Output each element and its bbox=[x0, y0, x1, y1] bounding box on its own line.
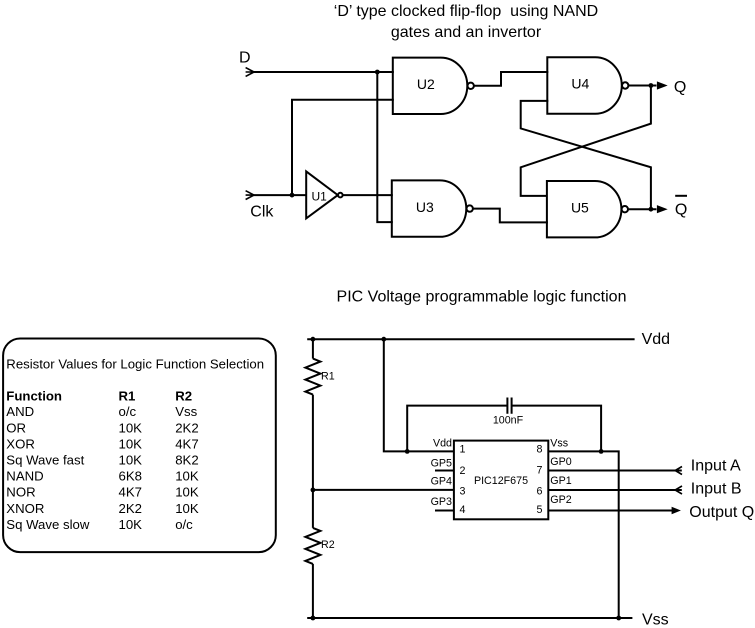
arrow head Qbar output bbox=[657, 205, 668, 213]
wire R1 to mid junction bbox=[312, 395, 314, 528]
svg-text:AND: AND bbox=[6, 404, 34, 419]
svg-text:Vss: Vss bbox=[550, 437, 568, 449]
svg-text:U4: U4 bbox=[571, 76, 589, 92]
wire U3 output to U5 bottom input bbox=[473, 209, 548, 223]
nand gate U5 body bbox=[547, 181, 622, 237]
svg-text:10K: 10K bbox=[175, 485, 199, 500]
svg-text:NOR: NOR bbox=[6, 485, 35, 500]
U2 output bubble bbox=[468, 83, 474, 89]
svg-text:2K2: 2K2 bbox=[119, 501, 142, 516]
svg-text:10K: 10K bbox=[119, 517, 143, 532]
arrow head Output Q bbox=[672, 507, 681, 515]
resistor R2 bbox=[305, 528, 320, 564]
svg-text:4: 4 bbox=[460, 504, 466, 516]
arrow head Input A bbox=[675, 467, 682, 475]
svg-text:PIC12F675: PIC12F675 bbox=[474, 475, 528, 487]
wire U5 output to Qbar bbox=[628, 208, 657, 210]
wire pin 5 Output Q bbox=[548, 510, 673, 512]
wire pin 6 Input B bbox=[548, 489, 682, 491]
resistor values table rounded box bbox=[3, 339, 276, 553]
svg-text:1: 1 bbox=[460, 444, 466, 456]
svg-text:U2: U2 bbox=[417, 76, 435, 92]
junction dot at Qbar output bbox=[649, 207, 654, 212]
svg-text:10K: 10K bbox=[119, 453, 143, 468]
capacitor C1 100nF plates bbox=[507, 398, 511, 414]
svg-text:6K8: 6K8 bbox=[119, 469, 142, 484]
svg-text:R1: R1 bbox=[119, 388, 136, 403]
svg-text:Clk: Clk bbox=[250, 204, 274, 221]
svg-text:R1: R1 bbox=[321, 371, 335, 383]
nand gate U4 body bbox=[547, 57, 621, 113]
inverter U1 triangle bbox=[306, 171, 338, 218]
svg-text:XOR: XOR bbox=[6, 436, 35, 451]
svg-text:10K: 10K bbox=[119, 420, 143, 435]
svg-text:8: 8 bbox=[537, 444, 543, 456]
svg-text:U1: U1 bbox=[312, 190, 328, 204]
wire pin 8 to Vss rail bbox=[548, 451, 618, 618]
svg-text:10K: 10K bbox=[175, 501, 199, 516]
svg-text:GP1: GP1 bbox=[550, 475, 571, 487]
svg-text:Resistor Values for Logic Func: Resistor Values for Logic Function Selec… bbox=[6, 357, 264, 372]
wire Vdd rail to R1 bbox=[312, 339, 314, 358]
wire U2 output to U4 top input bbox=[474, 72, 548, 86]
svg-text:‘D’ type clocked flip-flop us: ‘D’ type clocked flip-flop using NAND bbox=[334, 3, 598, 20]
nand gate U2 body bbox=[393, 58, 468, 114]
junction dot divider mid node bbox=[311, 488, 316, 493]
junction dot at Q output bbox=[649, 83, 654, 88]
junction dot capacitor right leg at pin 8 bbox=[599, 449, 604, 454]
svg-text:NAND: NAND bbox=[6, 469, 43, 484]
svg-text:Q: Q bbox=[674, 79, 686, 96]
svg-text:Output Q: Output Q bbox=[689, 504, 754, 521]
svg-text:8K2: 8K2 bbox=[175, 453, 198, 468]
nand gate U3 body bbox=[392, 180, 466, 236]
svg-text:o/c: o/c bbox=[119, 404, 137, 419]
svg-text:GP5: GP5 bbox=[431, 458, 452, 470]
svg-text:Sq Wave slow: Sq Wave slow bbox=[6, 517, 90, 532]
pin 4 stub wire bbox=[435, 510, 454, 512]
wire pin 7 Input A bbox=[548, 470, 682, 472]
svg-text:Vdd: Vdd bbox=[642, 331, 670, 348]
wire capacitor right leg bbox=[512, 406, 601, 452]
svg-text:5: 5 bbox=[537, 504, 543, 516]
svg-text:GP3: GP3 bbox=[431, 496, 452, 508]
wire U4 output to Q bbox=[628, 85, 656, 87]
svg-text:R2: R2 bbox=[321, 539, 335, 551]
svg-text:R2: R2 bbox=[175, 388, 192, 403]
Qbar overbar bbox=[675, 195, 687, 197]
junction dot on Clk line bbox=[290, 193, 295, 198]
junction dot Vss rail right bbox=[616, 616, 621, 621]
svg-text:2K2: 2K2 bbox=[175, 420, 198, 435]
junction dot Vdd rail chip branch bbox=[381, 337, 386, 342]
svg-text:GP0: GP0 bbox=[550, 456, 571, 468]
wire Clk branch vertical to U2 bottom input bbox=[292, 100, 394, 195]
junction dot Vss rail left bbox=[311, 616, 316, 621]
U4 output bubble bbox=[622, 82, 628, 88]
wire Vdd rail bbox=[307, 338, 634, 340]
inverter U1 output bubble bbox=[338, 193, 343, 198]
svg-text:4K7: 4K7 bbox=[175, 436, 198, 451]
arrow head Input B bbox=[675, 486, 682, 494]
svg-text:Function: Function bbox=[6, 388, 62, 403]
U3 output bubble bbox=[467, 205, 473, 211]
svg-text:gates and an invertor: gates and an invertor bbox=[391, 24, 542, 41]
svg-text:Input A: Input A bbox=[691, 457, 741, 474]
svg-text:10K: 10K bbox=[119, 436, 143, 451]
svg-text:o/c: o/c bbox=[175, 517, 193, 532]
svg-text:GP4: GP4 bbox=[431, 476, 452, 488]
wire capacitor left leg bbox=[407, 406, 507, 452]
svg-text:4K7: 4K7 bbox=[119, 485, 142, 500]
junction dot on D line bbox=[375, 70, 380, 75]
wire R2 to Vss rail bbox=[312, 564, 314, 618]
svg-text:Vss: Vss bbox=[642, 611, 669, 628]
IC U6 PIC12F675 body bbox=[454, 441, 548, 520]
wire feedback Q to U5 top input bbox=[521, 86, 651, 196]
svg-text:Vss: Vss bbox=[175, 404, 197, 419]
svg-text:U5: U5 bbox=[571, 199, 589, 215]
svg-text:Input B: Input B bbox=[691, 480, 742, 497]
arrow head Q output bbox=[657, 81, 668, 89]
svg-text:Sq Wave fast: Sq Wave fast bbox=[6, 453, 84, 468]
wire feedback Qbar to U4 bottom input bbox=[521, 101, 651, 209]
pin 2 stub wire bbox=[435, 470, 454, 472]
svg-text:Vdd: Vdd bbox=[433, 437, 452, 449]
junction dot Vdd rail left bbox=[311, 337, 316, 342]
wire Vss rail bbox=[307, 617, 632, 619]
junction dot capacitor left leg bbox=[405, 449, 410, 454]
wire Vdd branch down to pin 1 bbox=[384, 339, 454, 451]
wire U1 output to U3 top input bbox=[343, 194, 393, 196]
svg-text:3: 3 bbox=[460, 485, 466, 497]
svg-text:Q: Q bbox=[675, 201, 687, 218]
wire Clk to inverter bbox=[253, 194, 306, 196]
input arrow D bbox=[246, 68, 254, 77]
svg-text:2: 2 bbox=[460, 465, 466, 477]
input arrow Clk bbox=[246, 191, 254, 200]
svg-text:100nF: 100nF bbox=[493, 415, 524, 427]
svg-text:GP2: GP2 bbox=[550, 494, 571, 506]
wire mid node to GP4 pin 3 bbox=[313, 489, 454, 491]
svg-text:XNOR: XNOR bbox=[6, 501, 44, 516]
svg-text:6: 6 bbox=[537, 485, 543, 497]
svg-text:PIC Voltage programmable logic: PIC Voltage programmable logic function bbox=[337, 289, 627, 306]
wire D vertical down to U3 bottom input bbox=[377, 72, 393, 222]
wire D to U2 top input bbox=[253, 71, 394, 73]
svg-text:7: 7 bbox=[537, 464, 543, 476]
svg-text:10K: 10K bbox=[175, 469, 199, 484]
svg-text:U3: U3 bbox=[416, 199, 434, 215]
resistor R1 bbox=[305, 359, 320, 395]
svg-text:D: D bbox=[239, 50, 251, 67]
svg-text:OR: OR bbox=[6, 420, 26, 435]
U5 output bubble bbox=[622, 206, 628, 212]
